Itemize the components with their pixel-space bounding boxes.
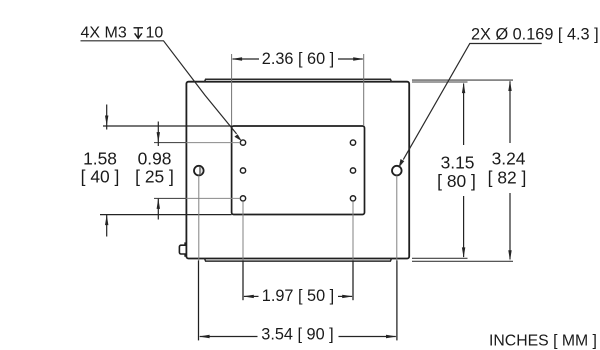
dim 0.98 ext line top [154, 142, 186, 144]
dim 1.58 ext line bottom [100, 214, 232, 216]
svg-text:[ 80 ]: [ 80 ] [437, 171, 476, 191]
svg-text:1.58: 1.58 [83, 149, 117, 169]
dim 0.98 ext line bottom [154, 197, 186, 199]
svg-text:3.54 [ 90 ]: 3.54 [ 90 ] [261, 325, 333, 343]
svg-text:4X M3: 4X M3 [81, 25, 127, 42]
dim 3.24 line + arrows [508, 81, 511, 261]
left connector tab [179, 243, 186, 256]
bottom lip [205, 259, 392, 262]
svg-text:2X Ø 0.169 [ 4.3 ]: 2X Ø 0.169 [ 4.3 ] [471, 26, 599, 44]
dim 1.58 line + arrows [105, 105, 108, 237]
leader 2X dia arrowhead [399, 159, 405, 168]
svg-text:[ 40 ]: [ 40 ] [81, 167, 120, 187]
dim 1.97 ext line right [352, 201, 354, 260]
body outline [186, 82, 409, 259]
svg-text:INCHES [ MM ]: INCHES [ MM ] [489, 333, 597, 350]
dim 1.58 ext line top [103, 125, 232, 127]
depth symbol [134, 28, 144, 39]
side hole left inner mark [199, 167, 201, 175]
dim 2.36 ext line left [231, 54, 233, 126]
dim 3.54 ext line left [198, 176, 200, 261]
svg-text:[ 25 ]: [ 25 ] [135, 167, 174, 187]
dim 3.15 ext line top [412, 81, 468, 83]
M3 hole bottom-right [350, 196, 355, 201]
dim 3.24 ext line bottom [412, 260, 513, 262]
leader 2X dia line [403, 44, 541, 160]
M3 hole top-right [350, 140, 355, 145]
top lip [205, 79, 392, 81]
svg-text:0.98: 0.98 [138, 149, 172, 169]
M3 hole bottom-left [240, 196, 245, 201]
M3 hole mid-left [240, 168, 245, 173]
leader 4X M3 line [81, 41, 237, 134]
svg-text:1.97 [ 50 ]: 1.97 [ 50 ] [262, 287, 334, 305]
svg-text:2.36 [ 60 ]: 2.36 [ 60 ] [262, 50, 334, 68]
dim 1.97 line + arrows [243, 295, 353, 298]
dim 1.97 ext line left [242, 201, 244, 260]
svg-text:3.15: 3.15 [441, 153, 475, 173]
dim 3.15 line + arrows [462, 83, 465, 258]
dim 3.54 line + arrows [199, 335, 397, 338]
side hole left [194, 166, 204, 176]
dim 2.36 line + arrows [232, 57, 364, 60]
M3 hole top-left [240, 140, 245, 145]
inner plate rect [232, 126, 365, 215]
svg-text:[ 82 ]: [ 82 ] [488, 168, 527, 188]
dim 0.98 line + arrows [157, 122, 160, 220]
svg-text:3.24: 3.24 [492, 149, 526, 169]
dim 2.36 ext line right [363, 54, 365, 126]
svg-text:10: 10 [146, 25, 164, 42]
dim 3.54 ext line right [396, 176, 398, 261]
dim 3.24 ext line top [412, 79, 513, 81]
M3 hole mid-right [350, 168, 355, 173]
side hole right [392, 166, 402, 176]
dim 3.15 ext line bottom [412, 257, 468, 259]
leader 4X M3 arrowhead [234, 134, 242, 141]
